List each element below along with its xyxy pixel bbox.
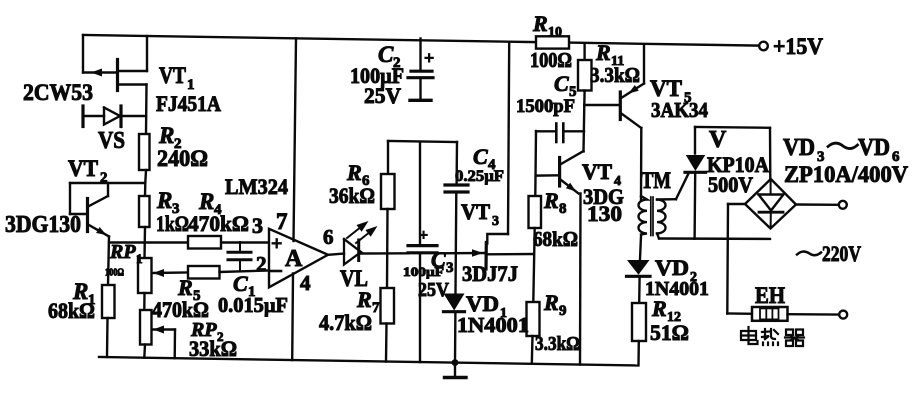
svg-text:R: R: [356, 287, 372, 312]
svg-text:VT: VT: [582, 159, 612, 184]
svg-text:0.25µF: 0.25µF: [455, 168, 504, 185]
svg-text:3AK34: 3AK34: [651, 98, 708, 122]
svg-text:500V: 500V: [708, 172, 753, 197]
svg-text:220V: 220V: [822, 241, 861, 266]
svg-text:R: R: [543, 290, 559, 315]
svg-text:VT: VT: [68, 156, 98, 181]
svg-text:68kΩ: 68kΩ: [533, 227, 578, 251]
svg-text:VT: VT: [159, 63, 186, 88]
svg-text:+: +: [419, 227, 428, 244]
svg-text:1: 1: [136, 251, 143, 266]
svg-text:A: A: [285, 246, 303, 272]
svg-text:2CW53: 2CW53: [23, 80, 93, 105]
svg-text:R: R: [543, 188, 559, 213]
svg-text:3.3kΩ: 3.3kΩ: [590, 63, 640, 87]
svg-text:7: 7: [276, 209, 288, 234]
svg-text:4.7kΩ: 4.7kΩ: [319, 310, 372, 335]
svg-text:25V: 25V: [418, 279, 449, 301]
svg-text:2: 2: [256, 252, 267, 276]
svg-text:3DG130: 3DG130: [5, 212, 81, 238]
svg-text:+: +: [271, 233, 282, 255]
svg-text:R: R: [595, 40, 611, 65]
svg-text:RP: RP: [109, 241, 136, 263]
svg-text:9: 9: [559, 303, 567, 319]
svg-text:FJ451A: FJ451A: [156, 91, 221, 116]
svg-text:8: 8: [559, 201, 567, 217]
svg-text:240Ω: 240Ω: [157, 146, 208, 171]
svg-text:VS: VS: [98, 128, 125, 154]
svg-text:3DJ7J: 3DJ7J: [462, 261, 518, 286]
svg-text:130: 130: [587, 201, 622, 226]
svg-text:1N4001: 1N4001: [457, 313, 529, 337]
svg-text:R: R: [158, 123, 174, 148]
svg-text:LM324: LM324: [225, 174, 288, 199]
svg-text:0.015µF: 0.015µF: [218, 293, 288, 317]
svg-text:C: C: [473, 144, 488, 169]
svg-text:100µF: 100µF: [403, 264, 444, 279]
svg-text:TM: TM: [641, 168, 671, 193]
svg-text:7: 7: [372, 300, 380, 316]
svg-text:10: 10: [548, 25, 562, 40]
svg-text:R: R: [346, 160, 362, 185]
svg-text:+: +: [424, 48, 434, 68]
svg-text:3: 3: [446, 260, 454, 276]
svg-text:C: C: [554, 71, 569, 96]
svg-text:VT: VT: [461, 199, 490, 224]
svg-text:25V: 25V: [364, 83, 401, 108]
svg-text:R: R: [651, 296, 667, 321]
svg-text:470kΩ: 470kΩ: [188, 211, 249, 236]
svg-text:R: R: [156, 188, 172, 213]
svg-text:1500pF: 1500pF: [516, 96, 575, 117]
svg-text:100Ω: 100Ω: [530, 48, 572, 72]
svg-text:2: 2: [100, 170, 108, 186]
svg-text:4: 4: [300, 271, 311, 295]
svg-text:6: 6: [323, 225, 334, 249]
svg-text:3: 3: [492, 214, 499, 229]
svg-text:33kΩ: 33kΩ: [189, 336, 237, 361]
svg-text:ZP10A/400V: ZP10A/400V: [784, 162, 908, 187]
svg-text:R: R: [532, 11, 548, 36]
svg-text:V: V: [709, 127, 727, 153]
svg-text:VD: VD: [655, 255, 689, 280]
svg-text:3: 3: [252, 213, 263, 238]
svg-text:VD: VD: [858, 135, 890, 161]
svg-text:VD: VD: [783, 135, 815, 161]
svg-text:+15V: +15V: [773, 34, 823, 59]
svg-text:51Ω: 51Ω: [650, 320, 689, 345]
svg-text:100Ω: 100Ω: [105, 267, 124, 279]
svg-text:EH: EH: [755, 283, 785, 308]
svg-text:68kΩ: 68kΩ: [48, 298, 95, 323]
svg-text:3.3kΩ: 3.3kΩ: [535, 333, 580, 355]
svg-text:1kΩ: 1kΩ: [156, 211, 189, 236]
svg-text:36kΩ: 36kΩ: [329, 183, 375, 208]
